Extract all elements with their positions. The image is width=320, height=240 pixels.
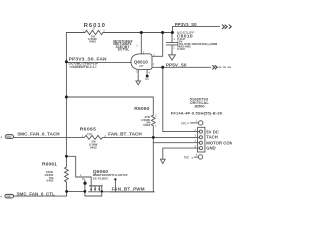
svg-text:1: 1 — [136, 44, 138, 48]
svg-text:FF14A-4P-0.5SH(55)-B-3K: FF14A-4P-0.5SH(55)-B-3K — [171, 110, 223, 115]
svg-text:4: 4 — [149, 71, 151, 75]
svg-text:PP5V_S0: PP5V_S0 — [166, 63, 187, 68]
svg-text:C1S3: C1S3 — [177, 47, 185, 51]
svg-text:NC: NC — [184, 156, 190, 160]
svg-text:PP3V3_S0: PP3V3_S0 — [175, 22, 197, 27]
svg-text:3: 3 — [136, 70, 138, 74]
svg-text:J6500: J6500 — [194, 105, 205, 109]
svg-text:MOTOR CON: MOTOR CON — [206, 140, 232, 145]
svg-text:1: 1 — [196, 119, 198, 123]
svg-text:TACH: TACH — [206, 135, 218, 140]
svg-text:0402: 0402 — [47, 178, 54, 182]
svg-text:R6010: R6010 — [84, 23, 106, 29]
svg-text:SCTGL: SCTGL — [118, 47, 131, 51]
svg-text:1: 1 — [83, 28, 85, 32]
svg-text:DP: DP — [139, 64, 143, 68]
svg-text:1B: 1B — [82, 178, 85, 181]
svg-text:0: 0 — [93, 27, 95, 31]
svg-text:FAN_BT_TACH: FAN_BT_TACH — [108, 131, 142, 136]
svg-text:×: × — [191, 155, 194, 160]
svg-text:6: 6 — [196, 152, 198, 156]
svg-text:1: 1 — [155, 124, 157, 128]
svg-text:909: 909 — [7, 135, 12, 139]
svg-text:4: 4 — [0, 195, 2, 199]
svg-text:×: × — [187, 121, 190, 126]
svg-text:<GABEDFW-2.1>: <GABEDFW-2.1> — [69, 65, 96, 69]
svg-text:NC: NC — [145, 77, 149, 81]
svg-text:2: 2 — [155, 114, 157, 118]
svg-text:R6060: R6060 — [134, 106, 149, 112]
svg-text:1: 1 — [101, 183, 103, 186]
svg-text:0402: 0402 — [89, 40, 96, 44]
svg-text:1: 1 — [153, 52, 155, 56]
svg-text:4: 4 — [1, 135, 3, 139]
svg-text:R6061: R6061 — [42, 162, 57, 168]
svg-text:0402: 0402 — [143, 123, 150, 127]
svg-text:47K: 47K — [87, 133, 94, 137]
svg-text:5V DC: 5V DC — [206, 129, 219, 134]
svg-text:0402: 0402 — [90, 145, 97, 149]
svg-text:GND: GND — [206, 146, 215, 151]
svg-text:SMC_FAN_0_TACH: SMC_FAN_0_TACH — [17, 132, 60, 137]
svg-text:SC-70,BEC: SC-70,BEC — [93, 177, 110, 181]
svg-text:2: 2 — [103, 28, 105, 32]
svg-text:1: 1 — [173, 37, 175, 41]
svg-text:SMC_FAN_0_CTL: SMC_FAN_0_CTL — [17, 192, 56, 197]
svg-text:1: 1 — [153, 62, 155, 66]
svg-text:FAN_BT_PWM: FAN_BT_PWM — [112, 186, 145, 191]
svg-text:2: 2 — [173, 46, 175, 50]
svg-text:909: 909 — [6, 195, 11, 199]
